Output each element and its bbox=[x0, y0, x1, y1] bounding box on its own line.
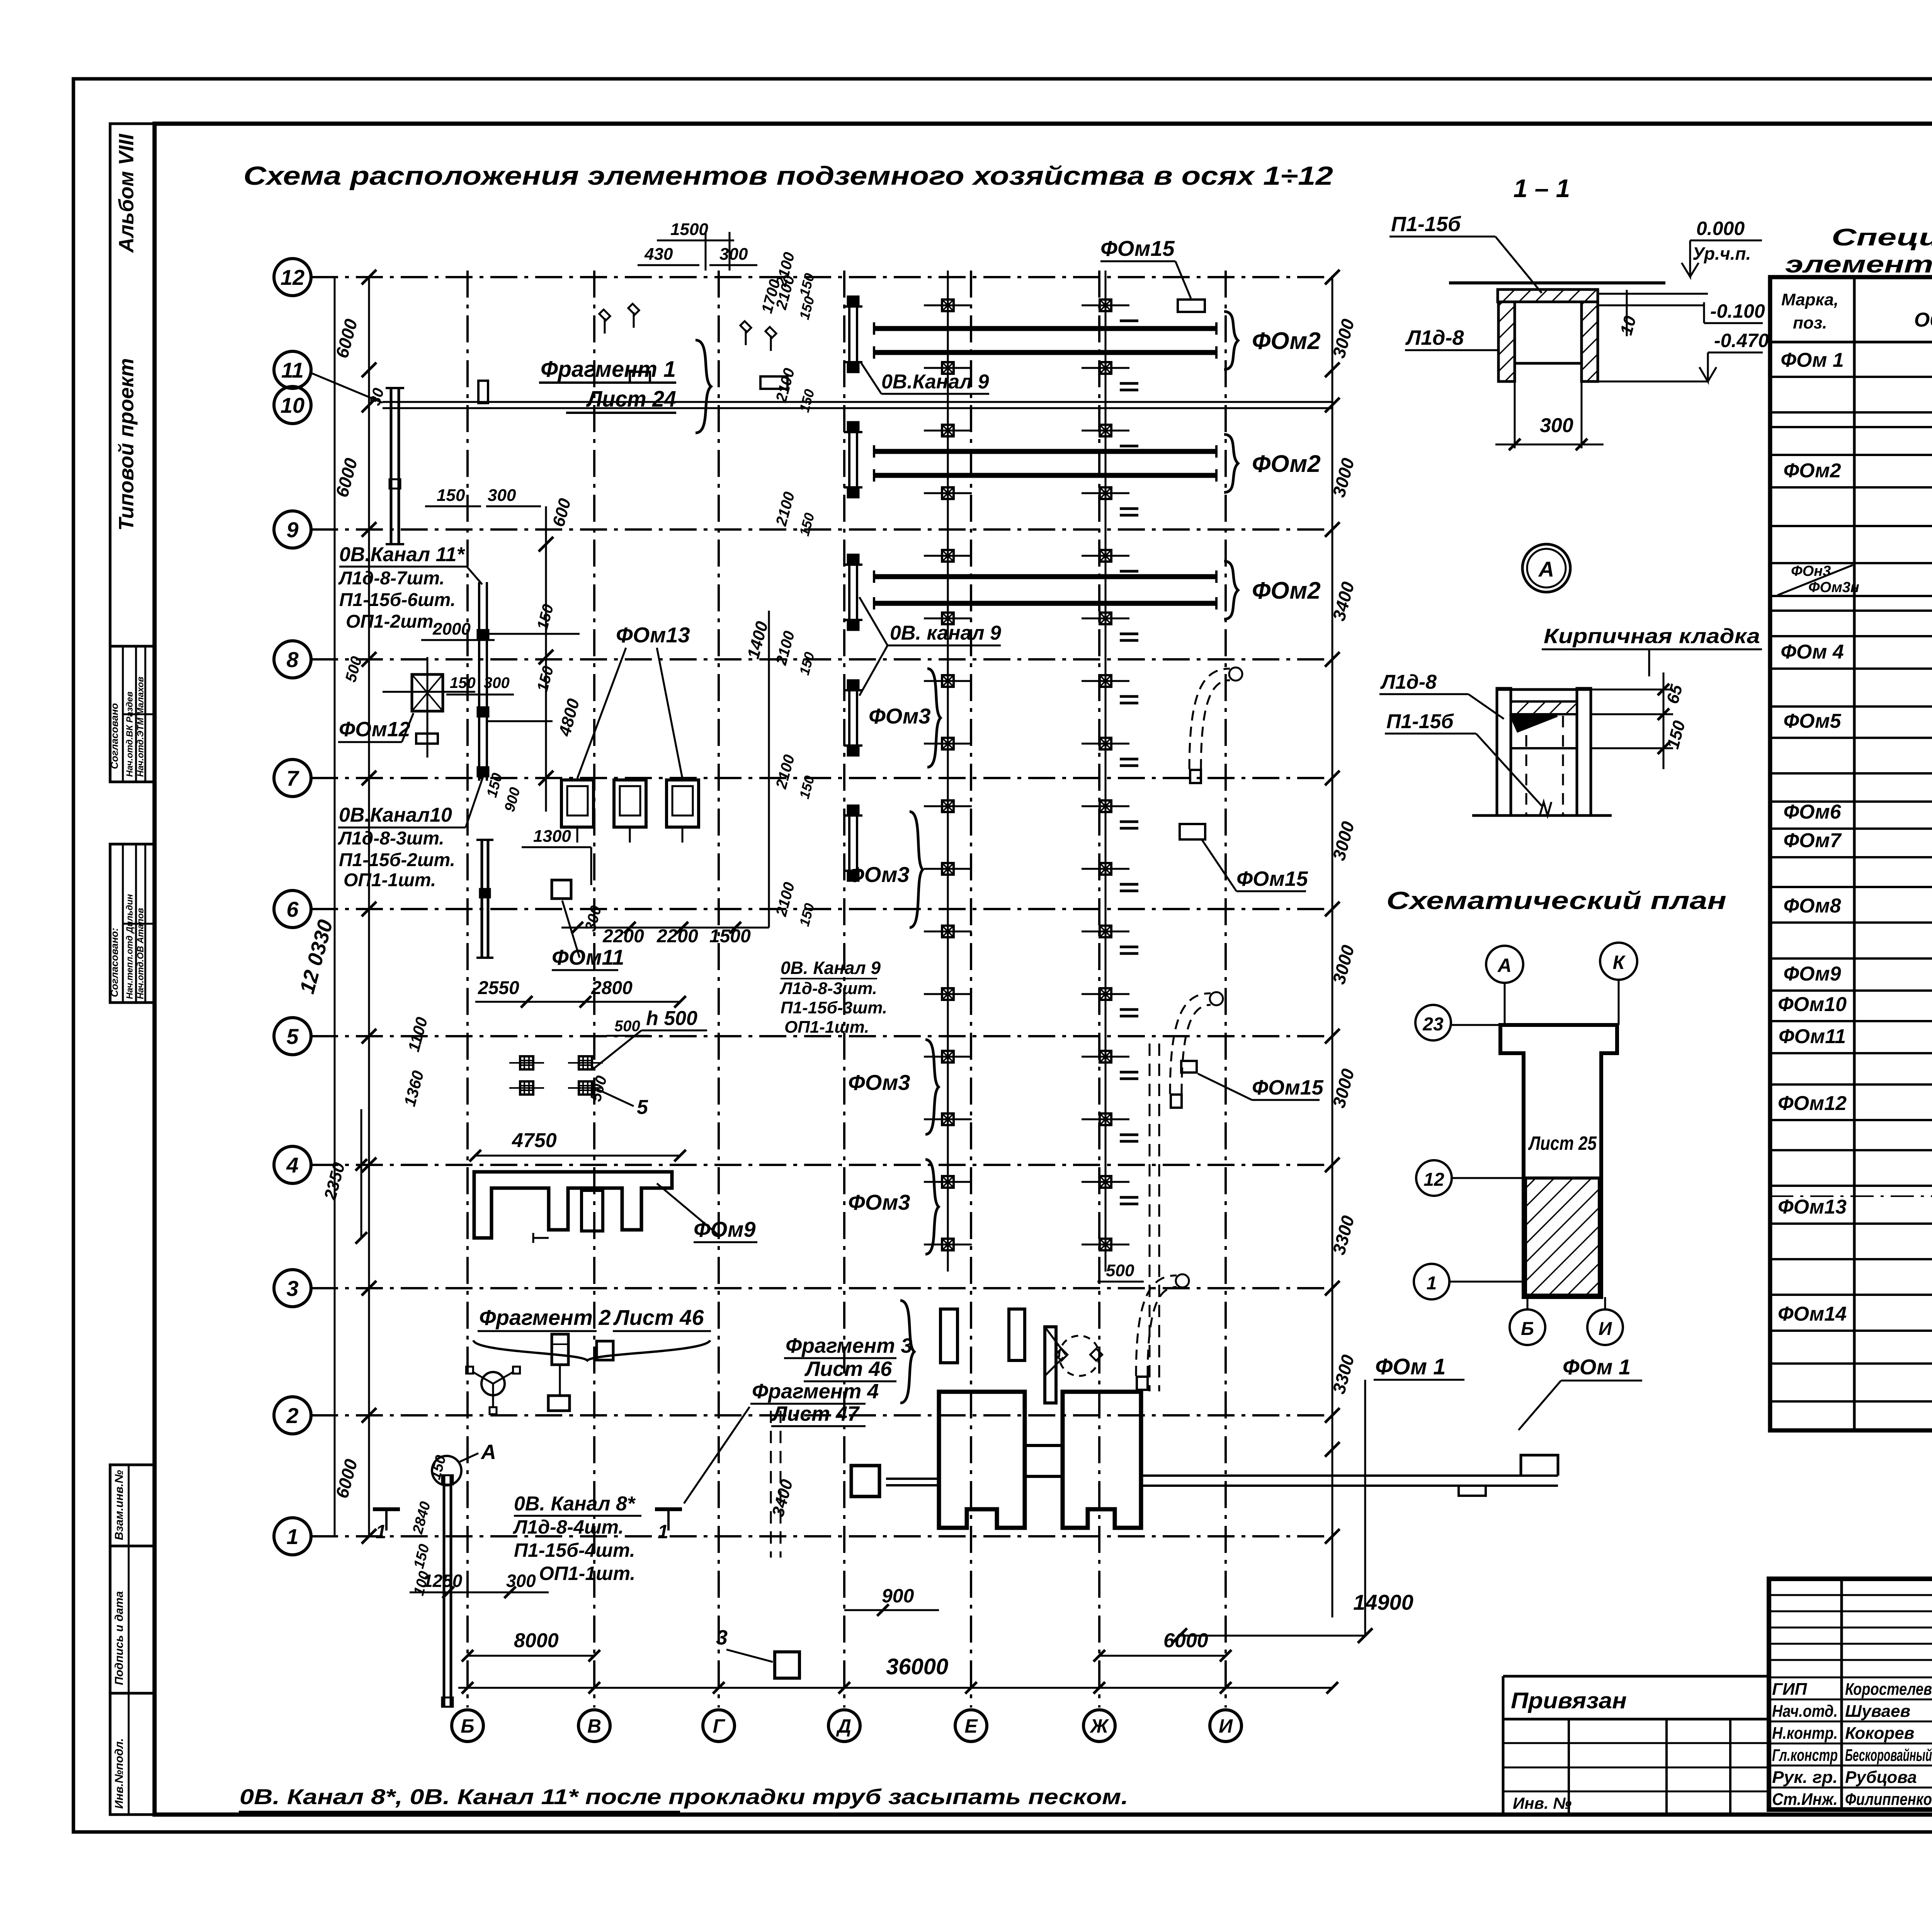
svg-text:150: 150 bbox=[437, 486, 465, 505]
svg-text:Фрагмент 3: Фрагмент 3 bbox=[786, 1334, 912, 1357]
svg-text:И: И bbox=[1599, 1319, 1612, 1339]
svg-text:ФОм9: ФОм9 bbox=[694, 1217, 756, 1241]
svg-text:3: 3 bbox=[286, 1276, 298, 1301]
svg-text:В: В bbox=[587, 1715, 601, 1737]
svg-text:1 – 1: 1 – 1 bbox=[1514, 174, 1570, 203]
svg-text:ОП1-1шт.: ОП1-1шт. bbox=[539, 1563, 635, 1584]
svg-text:500: 500 bbox=[614, 1018, 640, 1035]
svg-text:ФОм2: ФОм2 bbox=[1252, 328, 1321, 354]
svg-text:ФОм11: ФОм11 bbox=[552, 945, 624, 969]
svg-text:ОП1-1шт.: ОП1-1шт. bbox=[784, 1018, 869, 1037]
svg-text:Нач.тепл.отд Дильдин: Нач.тепл.отд Дильдин bbox=[124, 894, 134, 999]
svg-text:П1-15б-6шт.: П1-15б-6шт. bbox=[339, 590, 456, 610]
svg-text:Б: Б bbox=[1521, 1319, 1534, 1339]
svg-text:5: 5 bbox=[637, 1096, 648, 1119]
svg-text:ФОм5: ФОм5 bbox=[1783, 710, 1841, 732]
svg-text:2800: 2800 bbox=[591, 978, 633, 998]
svg-text:ФОм 1: ФОм 1 bbox=[1375, 1354, 1446, 1379]
svg-text:300: 300 bbox=[488, 486, 516, 505]
svg-text:П1-15б-3шт.: П1-15б-3шт. bbox=[781, 998, 887, 1017]
svg-text:6000: 6000 bbox=[1163, 1629, 1208, 1652]
svg-text:Нач.отд.ЭТМ Малахов: Нач.отд.ЭТМ Малахов bbox=[135, 677, 145, 777]
svg-text:430: 430 bbox=[644, 245, 673, 264]
svg-text:0В. канал 9: 0В. канал 9 bbox=[890, 622, 1001, 644]
svg-text:7: 7 bbox=[286, 766, 299, 790]
svg-text:Коростелев: Коростелев bbox=[1845, 1680, 1932, 1699]
svg-text:Ур.ч.п.: Ур.ч.п. bbox=[1692, 243, 1751, 264]
svg-text:Типовой проект: Типовой проект bbox=[115, 358, 138, 531]
svg-text:П1-15б: П1-15б bbox=[1391, 213, 1461, 236]
svg-text:элементов подземного хозяйств: элементов подземного хозяйства (начало) bbox=[1785, 251, 1932, 278]
svg-text:ФОм3н: ФОм3н bbox=[1808, 579, 1859, 596]
svg-text:Спецификация к схеме располож: Спецификация к схеме расположения bbox=[1832, 224, 1932, 251]
svg-text:1: 1 bbox=[286, 1524, 298, 1549]
svg-text:Взам.инв.№: Взам.инв.№ bbox=[113, 1470, 126, 1540]
svg-text:1300: 1300 bbox=[533, 827, 571, 846]
svg-text:Кокорев: Кокорев bbox=[1845, 1724, 1914, 1743]
svg-text:Лист 46: Лист 46 bbox=[613, 1305, 704, 1330]
svg-text:14900: 14900 bbox=[1353, 1590, 1413, 1614]
svg-text:2000: 2000 bbox=[432, 620, 471, 638]
svg-text:ФОм2: ФОм2 bbox=[1252, 451, 1321, 477]
svg-text:Альбом VIII: Альбом VIII bbox=[115, 133, 138, 253]
svg-text:Лист 46: Лист 46 bbox=[804, 1357, 892, 1381]
svg-text:ФОм 1: ФОм 1 bbox=[1563, 1355, 1631, 1379]
svg-text:Шуваев: Шуваев bbox=[1845, 1702, 1910, 1721]
svg-text:Л1д-8-3шт.: Л1д-8-3шт. bbox=[338, 828, 444, 849]
svg-text:Нач.отд.ОВ Атапов: Нач.отд.ОВ Атапов bbox=[135, 908, 145, 999]
svg-text:-0.470: -0.470 bbox=[1714, 330, 1769, 351]
svg-text:1: 1 bbox=[376, 1521, 386, 1542]
svg-text:2200: 2200 bbox=[656, 926, 698, 947]
svg-text:Е: Е bbox=[964, 1715, 978, 1737]
svg-text:ФОм15: ФОм15 bbox=[1252, 1076, 1324, 1099]
svg-text:12: 12 bbox=[281, 265, 304, 289]
svg-text:Схема расположения элементов п: Схема расположения элементов подземного … bbox=[243, 161, 1333, 191]
svg-text:поз.: поз. bbox=[1793, 313, 1827, 332]
svg-text:1250: 1250 bbox=[423, 1571, 463, 1591]
svg-text:Рубцова: Рубцова bbox=[1845, 1768, 1917, 1787]
svg-text:Привязан: Привязан bbox=[1511, 1688, 1627, 1713]
svg-text:Н.контр.: Н.контр. bbox=[1772, 1724, 1838, 1743]
svg-text:ФОм15: ФОм15 bbox=[1236, 867, 1308, 890]
svg-text:23: 23 bbox=[1422, 1014, 1444, 1035]
svg-text:4: 4 bbox=[286, 1153, 298, 1177]
svg-text:300: 300 bbox=[1540, 414, 1573, 437]
svg-text:Ст.Инж.: Ст.Инж. bbox=[1772, 1790, 1838, 1809]
svg-text:П1-15б: П1-15б bbox=[1386, 710, 1454, 733]
svg-text:150: 150 bbox=[450, 674, 476, 691]
svg-text:1: 1 bbox=[1427, 1273, 1437, 1294]
svg-text:ОП1-1шт.: ОП1-1шт. bbox=[344, 870, 436, 890]
svg-text:4750: 4750 bbox=[512, 1129, 557, 1152]
svg-text:Лист 47: Лист 47 bbox=[771, 1402, 860, 1425]
svg-text:Фрагмент 1: Фрагмент 1 bbox=[541, 357, 676, 382]
svg-text:П1-15б-2шт.: П1-15б-2шт. bbox=[339, 850, 455, 870]
svg-text:Л1д-8: Л1д-8 bbox=[1380, 671, 1437, 693]
svg-text:А: А bbox=[1538, 557, 1554, 581]
svg-text:ФОм6: ФОм6 bbox=[1783, 801, 1841, 823]
svg-text:h 500: h 500 bbox=[646, 1007, 697, 1030]
svg-text:ГИП: ГИП bbox=[1772, 1680, 1808, 1699]
svg-text:300: 300 bbox=[506, 1571, 536, 1591]
svg-text:900: 900 bbox=[882, 1585, 914, 1607]
svg-text:И: И bbox=[1219, 1715, 1233, 1737]
svg-text:Инв. №: Инв. № bbox=[1513, 1794, 1571, 1812]
svg-text:0В.Канал10: 0В.Канал10 bbox=[339, 804, 452, 826]
svg-text:ФОм12: ФОм12 bbox=[1778, 1092, 1847, 1115]
svg-text:0В.Канал 11*: 0В.Канал 11* bbox=[339, 543, 466, 566]
svg-text:Л1д-8: Л1д-8 bbox=[1405, 326, 1464, 349]
svg-text:1500: 1500 bbox=[670, 220, 708, 239]
svg-text:ФОм3: ФОм3 bbox=[847, 862, 910, 887]
svg-text:Нач.отд.: Нач.отд. bbox=[1772, 1702, 1838, 1721]
svg-text:ФОм12: ФОм12 bbox=[339, 718, 410, 741]
svg-text:10: 10 bbox=[281, 393, 304, 417]
svg-text:ФОм3: ФОм3 bbox=[869, 704, 931, 728]
svg-text:А: А bbox=[1497, 955, 1512, 976]
svg-text:ФОм10: ФОм10 bbox=[1778, 993, 1847, 1016]
svg-text:300: 300 bbox=[484, 674, 510, 691]
svg-text:Лист 24: Лист 24 bbox=[586, 386, 676, 412]
svg-text:Филиппенко: Филиппенко bbox=[1845, 1790, 1932, 1809]
svg-text:Схематический план: Схематический план bbox=[1386, 887, 1726, 914]
svg-text:0В. Канал 8*: 0В. Канал 8* bbox=[514, 1493, 636, 1515]
svg-text:ФОм3: ФОм3 bbox=[848, 1190, 910, 1214]
svg-text:36000: 36000 bbox=[886, 1654, 948, 1679]
svg-text:ФОм7: ФОм7 bbox=[1783, 829, 1842, 852]
svg-text:9: 9 bbox=[286, 518, 298, 542]
svg-text:ОП1-2шт.: ОП1-2шт. bbox=[346, 611, 438, 632]
svg-text:0В. Канал 8*, 0В. Канал 11* п: 0В. Канал 8*, 0В. Канал 11* после прокла… bbox=[240, 1784, 1128, 1809]
svg-text:ФОм9: ФОм9 bbox=[1783, 963, 1841, 985]
svg-text:Инв.№подл.: Инв.№подл. bbox=[113, 1738, 126, 1809]
svg-text:2: 2 bbox=[286, 1403, 298, 1428]
svg-text:К: К bbox=[1613, 952, 1626, 973]
svg-text:Д: Д bbox=[836, 1715, 851, 1737]
svg-text:ФОм14: ФОм14 bbox=[1778, 1303, 1847, 1325]
svg-text:Лист 25: Лист 25 bbox=[1528, 1132, 1597, 1154]
svg-text:0В.Канал 9: 0В.Канал 9 bbox=[881, 371, 989, 393]
svg-text:-0.100: -0.100 bbox=[1710, 300, 1765, 322]
svg-text:Согласовано: Согласовано bbox=[109, 703, 120, 769]
svg-text:3: 3 bbox=[716, 1626, 728, 1649]
svg-text:1500: 1500 bbox=[709, 926, 751, 947]
svg-text:Гл.констр: Гл.констр bbox=[1772, 1746, 1838, 1765]
svg-text:Согласовано:: Согласовано: bbox=[109, 928, 120, 997]
svg-text:Л1д-8-4шт.: Л1д-8-4шт. bbox=[513, 1516, 624, 1538]
svg-text:ФОм8: ФОм8 bbox=[1783, 895, 1841, 917]
svg-text:0В. Канал 9: 0В. Канал 9 bbox=[781, 958, 881, 978]
svg-text:Обозначение: Обозначение bbox=[1914, 309, 1932, 331]
svg-text:ФОм2: ФОм2 bbox=[1252, 577, 1321, 604]
svg-text:300: 300 bbox=[719, 245, 748, 264]
svg-text:ФОм2: ФОм2 bbox=[1783, 460, 1841, 482]
svg-text:8: 8 bbox=[286, 647, 299, 672]
svg-text:П1-15б-4шт.: П1-15б-4шт. bbox=[514, 1539, 635, 1561]
svg-text:ФОм 1: ФОм 1 bbox=[1781, 349, 1844, 371]
svg-text:2200: 2200 bbox=[602, 926, 644, 947]
svg-text:Б: Б bbox=[461, 1715, 474, 1737]
svg-text:Л1д-8-7шт.: Л1д-8-7шт. bbox=[338, 568, 445, 589]
svg-text:ФОм11: ФОм11 bbox=[1779, 1025, 1846, 1048]
svg-text:0.000: 0.000 bbox=[1696, 218, 1745, 239]
svg-text:8000: 8000 bbox=[514, 1629, 559, 1652]
svg-text:ФОм15: ФОм15 bbox=[1100, 236, 1175, 260]
svg-text:Подпись и дата: Подпись и дата bbox=[113, 1591, 126, 1685]
svg-text:11: 11 bbox=[281, 358, 304, 382]
svg-text:А: А bbox=[480, 1440, 496, 1464]
svg-text:Ж: Ж bbox=[1089, 1715, 1109, 1737]
svg-text:Рук. гр.: Рук. гр. bbox=[1772, 1768, 1838, 1787]
svg-text:Нач.отд.ВК Раздев: Нач.отд.ВК Раздев bbox=[124, 691, 134, 777]
svg-text:500: 500 bbox=[1106, 1261, 1134, 1280]
svg-text:Г: Г bbox=[713, 1715, 726, 1737]
svg-text:Бескоровайный: Бескоровайный bbox=[1845, 1746, 1932, 1765]
svg-text:1: 1 bbox=[658, 1521, 668, 1542]
svg-text:5: 5 bbox=[286, 1024, 299, 1049]
svg-text:ФОм13: ФОм13 bbox=[1778, 1196, 1847, 1218]
svg-text:6: 6 bbox=[286, 897, 299, 921]
svg-text:Фрагмент 4: Фрагмент 4 bbox=[752, 1380, 879, 1403]
svg-text:ФОм3: ФОм3 bbox=[848, 1070, 910, 1095]
svg-text:12: 12 bbox=[1423, 1170, 1444, 1190]
svg-text:Кирпичная кладка: Кирпичная кладка bbox=[1544, 625, 1760, 648]
svg-text:2550: 2550 bbox=[478, 978, 519, 998]
svg-text:ФОм13: ФОм13 bbox=[616, 623, 690, 647]
svg-text:Марка,: Марка, bbox=[1781, 290, 1838, 309]
svg-text:Фрагмент 2: Фрагмент 2 bbox=[479, 1305, 611, 1330]
svg-text:Л1д-8-3шт.: Л1д-8-3шт. bbox=[779, 979, 877, 998]
svg-text:ФОм 4: ФОм 4 bbox=[1781, 641, 1844, 663]
